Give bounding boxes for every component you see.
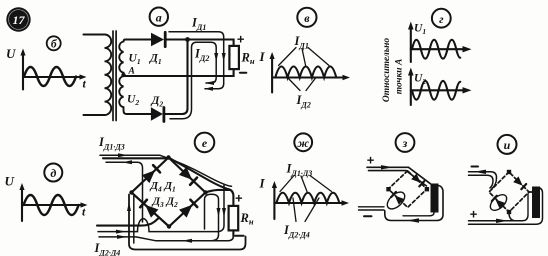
wire: outer loop (bridge з) with left arrow <box>385 186 443 221</box>
svg-text:+: + <box>237 32 245 47</box>
section label а <box>150 8 168 26</box>
axis t horizontal (waveform д) <box>22 204 82 206</box>
svg-text:+: + <box>367 153 375 168</box>
sine wave U(t) (waveform б) <box>24 67 76 86</box>
load Rн solid bar (bridge з) <box>431 184 439 213</box>
leader lines Iд1 to humps 1,3,5 (waveform в) <box>279 48 330 66</box>
label − (bridge е) <box>235 235 243 237</box>
transformer core <box>113 31 116 121</box>
current path Iд2 (circuit а) <box>170 42 216 119</box>
svg-text:г: г <box>439 12 444 26</box>
axis U2 vertical (waveform г) <box>410 73 412 105</box>
axis t horizontal (waveform в) <box>272 76 344 78</box>
leader lines Iд2 to humps 2,4 (waveform в) <box>288 78 317 91</box>
svg-text:+: + <box>235 191 243 206</box>
svg-text:точки А: точки А <box>395 59 405 95</box>
wire: diode Д1 to load <box>166 40 233 46</box>
svg-text:I: I <box>259 176 266 191</box>
wire: top pair (bridge и) with left arrow <box>469 172 497 189</box>
axis t horizontal (waveform б) <box>23 76 81 78</box>
wire: inner loop (bridge з) <box>403 213 434 216</box>
wire: bridge top vertex to load Rн (diagonal) <box>169 158 234 206</box>
section label з <box>396 133 415 152</box>
current path beside diagonal (thin) <box>98 185 224 232</box>
bridge diamond arms <box>132 158 206 227</box>
diode Д1 (upper-right arm) <box>179 167 197 185</box>
sine wave U2 (waveform г) <box>412 81 460 100</box>
svg-text:17: 17 <box>13 13 26 27</box>
svg-text:U: U <box>5 174 15 189</box>
wire: inner line from R down to bottom pair (и) <box>522 194 528 221</box>
svg-text:и: и <box>504 138 511 152</box>
figure number badge 17 <box>6 7 30 31</box>
transformer secondary winding U1 <box>119 40 127 77</box>
sine wave U(t) (waveform д) <box>24 195 79 215</box>
diode solid upper-right (з) <box>411 174 420 183</box>
wire: diode Д2 riser to junction <box>165 40 188 115</box>
diode solid lower-left (з) <box>395 196 404 205</box>
section label в <box>297 8 316 27</box>
current oval around diode (bridge и) <box>488 192 510 214</box>
section label ж <box>294 133 312 151</box>
dashed bridge diamond (и) <box>489 172 529 212</box>
axis I vertical (waveform в) <box>271 56 273 93</box>
transformer primary lead top <box>84 33 105 35</box>
diode solid upper-right (и) <box>513 176 522 185</box>
node: junction dot on top wire <box>185 37 190 42</box>
axis U vertical (waveform д) <box>21 187 23 221</box>
wire: center tap A to load bottom <box>124 69 234 76</box>
section label б <box>47 36 61 50</box>
leader lines Iд1·д3 to humps 1,3,5 (waveform ж) <box>280 176 332 192</box>
diode Д1 <box>151 33 164 46</box>
svg-text:ж: ж <box>297 136 309 150</box>
wire: secondary top to diode Д1 <box>127 38 151 40</box>
section label е <box>195 133 215 153</box>
diode Д2 (lower-right arm) <box>179 200 197 218</box>
label − (bridge з) <box>364 215 372 217</box>
current path top input (thin with right arrow) <box>100 155 232 186</box>
axis t horizontal (waveform ж) <box>274 202 343 204</box>
wire: bottom pair (bridge и) with right arrow <box>469 188 543 225</box>
current path return (thin with left arrow, curving down) <box>106 162 143 222</box>
load Rн solid bar (bridge и) <box>532 187 540 219</box>
axis U1 vertical (waveform г) <box>410 27 412 62</box>
current path parallel to left riser <box>133 196 135 243</box>
current path arch under right vertex (thin) <box>205 194 219 240</box>
svg-text:Относительно: Относительно <box>382 38 392 103</box>
wire: input A to bridge top vertex <box>103 157 167 159</box>
wire: left pair (bridge з) <box>359 207 385 210</box>
svg-text:U: U <box>6 46 16 61</box>
wire: thick bottom-left input <box>97 218 159 225</box>
svg-text:+: + <box>470 207 478 222</box>
rectified humps (waveform ж) <box>276 193 339 203</box>
wire: right vertex stub <box>206 190 231 193</box>
node top vertex <box>166 155 170 159</box>
diode solid lower-left (и) <box>495 199 505 208</box>
node bottom vertex <box>167 224 171 228</box>
node right vertex (з) <box>425 187 429 191</box>
label − (bridge и) <box>472 166 479 168</box>
axis I vertical (waveform ж) <box>273 185 275 219</box>
node right vertex <box>203 190 207 194</box>
sine wave U1 (waveform г) <box>412 40 460 59</box>
transformer primary winding <box>105 35 112 116</box>
label − (circuit а) <box>240 72 246 74</box>
svg-text:в: в <box>304 11 310 25</box>
wire: diagonal pair (bridge з) <box>406 167 431 186</box>
section label г <box>432 9 451 28</box>
current path return line to transformer (thin) <box>99 236 233 241</box>
svg-text:д: д <box>50 166 56 180</box>
svg-text:е: е <box>202 136 208 150</box>
diode Д4 (upper-left arm) <box>142 165 160 183</box>
dashed bridge diamond (з) <box>388 171 427 208</box>
wire: bottom vertex stub (и) <box>509 213 516 221</box>
node A (center tap) <box>121 73 125 77</box>
wire: top input pair (bridge з) with right arrow <box>367 167 409 170</box>
current path Iд1 (circuit а) <box>169 32 224 89</box>
node top vertex (и) <box>507 170 511 174</box>
transformer secondary winding U2 <box>119 76 127 114</box>
node left vertex (з) <box>386 187 390 191</box>
section label д <box>44 164 62 182</box>
diode Д2 <box>151 107 163 120</box>
axis U2 horizontal (waveform г) <box>411 89 463 91</box>
transformer primary lead bottom <box>84 114 105 116</box>
svg-text:I: I <box>259 49 266 64</box>
node bottom vertex (и) <box>507 210 511 214</box>
svg-text:а: а <box>156 10 162 24</box>
wire: right vertex to load (и) <box>529 191 532 193</box>
rectified humps (waveform в) <box>275 67 336 78</box>
node left vertex <box>129 190 133 194</box>
leader lines Iд2·д4 to humps 2,4 (waveform ж) <box>293 198 319 222</box>
wire: secondary bottom to diode Д2 <box>127 113 151 115</box>
axis U1 horizontal (waveform г) <box>411 48 463 50</box>
svg-text:з: з <box>402 136 408 150</box>
current oval around diode Д3 (bridge з) <box>384 189 408 212</box>
wire: Rн bottom lead <box>232 230 234 236</box>
wire: left vertex riser and bottom return loop <box>129 195 246 250</box>
section label и <box>498 135 517 154</box>
svg-text:Д4 Д1: Д4 Д1 <box>150 180 176 194</box>
axis U vertical (waveform б) <box>22 52 24 90</box>
resistor Rн (bridge е) <box>229 206 239 231</box>
resistor Rн (circuit а) <box>229 46 239 69</box>
diode Д3 (lower-left arm) <box>140 200 158 218</box>
